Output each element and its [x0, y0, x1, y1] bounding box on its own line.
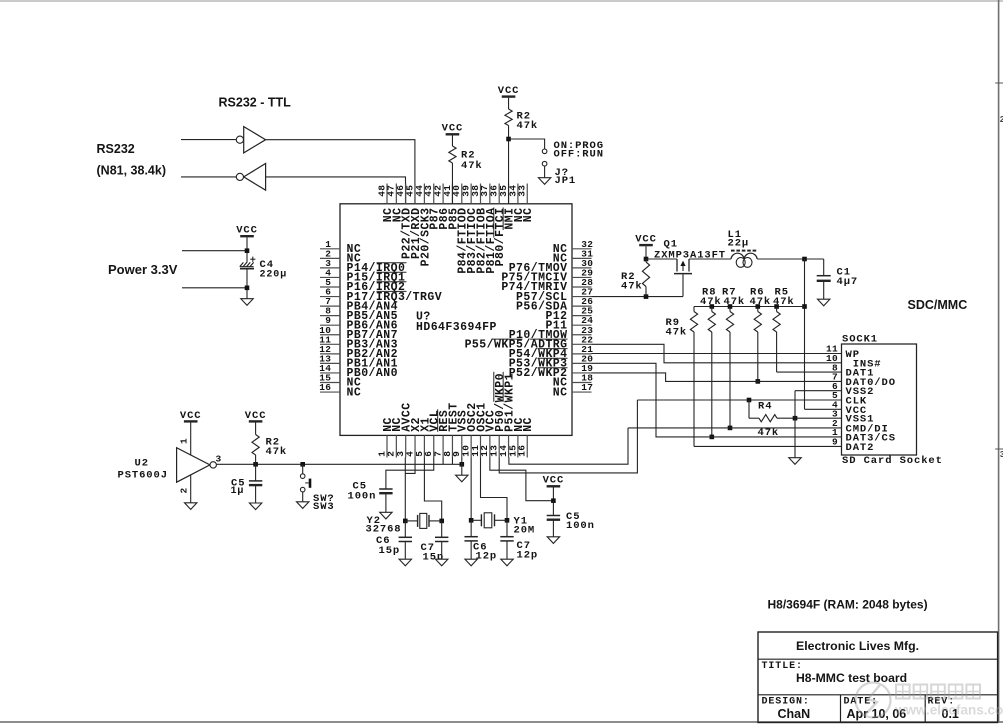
wire P55/ADTRG to INS#	[592, 344, 842, 363]
wire switch drop	[302, 464, 304, 474]
wire pullup bus	[694, 306, 805, 308]
pin 8 TEST (bottom)	[451, 435, 453, 457]
svg-text:ChaN: ChaN	[778, 707, 811, 721]
pin 11 OSC1 (bottom)	[480, 435, 482, 457]
ground (C5 100n)	[380, 512, 392, 519]
pin 35 NMI (top)	[508, 184, 510, 204]
pin 43 P87 (top)	[433, 184, 435, 204]
svg-text:1: 1	[179, 438, 190, 444]
crystal Y2 (32768)	[405, 520, 417, 522]
page bottom border	[0, 721, 1003, 723]
buffer B (TTL to RS232 inverter)	[244, 164, 266, 191]
wire OSC2 drop	[470, 458, 472, 521]
ground (C7 12p)	[501, 559, 513, 566]
wire VCL to C5	[386, 458, 434, 490]
ground (VSS)	[456, 475, 468, 482]
pin 48 NC (top)	[386, 184, 388, 204]
svg-text:NC: NC	[347, 386, 362, 399]
wire P54/WKP4 to WP	[592, 353, 842, 355]
crystal Y1 (20M)	[471, 519, 481, 521]
svg-text:47k: 47k	[700, 296, 722, 308]
svg-text:47k: 47k	[461, 160, 483, 172]
junction	[551, 498, 556, 503]
wire	[552, 520, 554, 537]
pin 5 P16/IRQ2 (left)	[320, 286, 340, 288]
junction	[506, 137, 511, 142]
wire CMD from P51/WKP1	[509, 428, 628, 464]
svg-text:JP1: JP1	[555, 175, 577, 187]
wire	[645, 246, 647, 259]
wire P22/TXD to buffer B input	[266, 177, 406, 204]
ground (C7 15p)	[436, 559, 448, 566]
svg-text:12p: 12p	[517, 550, 539, 562]
node B junction	[439, 519, 444, 524]
frame tick mark 2	[995, 448, 1003, 450]
junction	[802, 304, 807, 309]
svg-text:RS232 - TTL: RS232 - TTL	[219, 96, 292, 110]
wire	[506, 520, 508, 536]
junction	[710, 435, 715, 440]
pin 16 NC (bottom)	[526, 435, 528, 457]
title block outer box	[758, 632, 998, 723]
pin 11 PB3/AN3 (left)	[320, 343, 340, 345]
wire	[470, 541, 472, 559]
pin 28 P74/TMRIV (right)	[572, 286, 592, 288]
pin 47 NC (top)	[395, 184, 397, 204]
svg-text:H8-MMC test board: H8-MMC test board	[796, 671, 907, 685]
svg-text:ZXMP3A13FT: ZXMP3A13FT	[654, 250, 726, 262]
pin 2 NC (bottom)	[395, 435, 397, 457]
svg-text:1µ: 1µ	[231, 486, 245, 497]
capacitor C7 (12p)	[500, 536, 513, 538]
pin 14 PB0/AN0 (left)	[320, 372, 340, 374]
junction	[793, 416, 798, 421]
wire VCC pin12 net	[490, 458, 554, 501]
svg-text:DAT2: DAT2	[846, 442, 875, 454]
svg-text:47k: 47k	[621, 281, 643, 293]
capacitor C6 (15p)	[399, 536, 412, 538]
pin 12 VCC (bottom)	[489, 435, 491, 457]
title block title row line	[758, 694, 998, 696]
wire RES riser	[442, 458, 444, 465]
wire U2 pin1	[190, 423, 192, 456]
wire switched rail to socket VCC	[804, 259, 806, 409]
junction	[300, 462, 305, 467]
svg-text:3: 3	[216, 454, 222, 465]
wire VSS drop	[461, 458, 463, 476]
pin 33 NC (top)	[526, 184, 528, 204]
sheet right frame line	[998, 0, 1000, 722]
ground (SW3)	[297, 502, 309, 509]
pin 8 PB5/AN5 (left)	[320, 315, 340, 317]
svg-text:SW3: SW3	[313, 501, 335, 513]
svg-text:220µ: 220µ	[260, 270, 288, 281]
ground (socket VSS)	[789, 458, 801, 465]
svg-text:NC: NC	[522, 417, 535, 432]
svg-text:U2: U2	[135, 458, 149, 470]
title block company row line	[758, 658, 998, 660]
pin 44 P20/SCK3 (top)	[423, 184, 425, 204]
ground (C5 100n vcc)	[547, 537, 559, 544]
junction	[774, 304, 779, 309]
wire	[441, 521, 443, 537]
junction	[756, 304, 761, 309]
svg-text:4µ7: 4µ7	[837, 276, 859, 288]
wire	[385, 493, 387, 512]
ground (C6 15p)	[399, 559, 411, 566]
pin 12 PB2/AN2 (left)	[320, 353, 340, 355]
capacitor C4 (electrolytic 220u)	[240, 262, 244, 266]
svg-text:NC: NC	[553, 386, 568, 399]
junction	[710, 304, 715, 309]
junction	[802, 257, 807, 262]
svg-text:Power 3.3V: Power 3.3V	[108, 262, 178, 277]
junction	[644, 257, 649, 262]
wire power - input	[182, 287, 247, 289]
capacitor C1 (4u7)	[817, 275, 831, 277]
wire	[255, 455, 257, 464]
pin 39 P83/FTIOC (top)	[470, 184, 472, 204]
pin 15 NC (left)	[320, 382, 340, 384]
pin 23 P10/TMOW (right)	[572, 334, 592, 336]
op-amp U2 PST600J (reset detector)	[177, 448, 210, 483]
wire VCC stem	[246, 237, 248, 262]
wire buffer A output to P21/RXD	[266, 140, 415, 204]
pin 4 P15/IRQ1 (left)	[320, 276, 340, 278]
VCC symbol (R2 P85 pullup)	[446, 133, 460, 135]
pin 31 NC (right)	[572, 257, 592, 259]
page top border	[0, 0, 1003, 2]
wire AVCC / node A drop	[404, 458, 406, 521]
ground (C1)	[818, 299, 830, 306]
svg-text:VCC: VCC	[180, 410, 202, 422]
pin 32 NC (right)	[572, 248, 592, 250]
capacitor C6 (12p)	[464, 536, 477, 538]
wire	[552, 501, 554, 516]
pin 9 PB6/AN6 (left)	[320, 324, 340, 326]
junction	[253, 462, 258, 467]
pin 10 OSC2 (bottom)	[470, 435, 472, 457]
svg-text:16: 16	[319, 382, 331, 393]
pin 20 P53/WKP3 (right)	[572, 362, 592, 364]
pin 42 P86 (top)	[442, 184, 444, 204]
wire P53/WKP3 to DAT3/CS	[592, 363, 842, 437]
wire	[451, 163, 453, 204]
ground (C5 1u)	[249, 503, 261, 510]
svg-text:NC: NC	[522, 208, 535, 223]
VCC symbol (power entry)	[240, 235, 254, 237]
wire	[255, 464, 257, 481]
wire CMD net	[628, 427, 842, 429]
pin 5 X1 (bottom)	[423, 435, 425, 457]
wire TEST riser	[451, 458, 453, 465]
resistor R9 (47k DAT2 pullup)	[693, 307, 695, 312]
junction	[644, 294, 649, 299]
wire	[823, 259, 825, 276]
pin 6 VCL (bottom)	[433, 435, 435, 457]
node junction	[505, 518, 510, 523]
resistor R7 (47k CMD pullup)	[729, 307, 731, 312]
junction	[747, 398, 752, 403]
svg-text:16: 16	[517, 445, 528, 457]
resistor R6 (47k DAT0 pullup)	[757, 307, 759, 312]
switch SW3 pushbutton	[300, 474, 305, 479]
wire	[255, 485, 257, 503]
pin 13 PB1/AN1 (left)	[320, 362, 340, 364]
wire OSC1 jog	[481, 458, 508, 521]
svg-text:47k: 47k	[773, 296, 795, 308]
wire CLK from P50/WKP0	[499, 400, 637, 473]
capacitor C5 (1u)	[249, 480, 262, 482]
wire	[552, 488, 554, 501]
wire	[544, 166, 546, 178]
svg-text:3: 3	[1000, 450, 1003, 460]
svg-text:12p: 12p	[476, 551, 498, 563]
pin 40 P84/FTIOD (top)	[461, 184, 463, 204]
svg-text:RS232: RS232	[97, 142, 135, 156]
wire X1 jog	[424, 458, 441, 521]
wire	[508, 98, 510, 109]
svg-text:H8/3694F (RAM: 2048 bytes): H8/3694F (RAM: 2048 bytes)	[768, 598, 928, 612]
svg-text:VCC: VCC	[245, 410, 267, 422]
node junction	[469, 518, 474, 523]
VCC symbol (R2 pullup)	[249, 420, 263, 422]
wire R5 to DAT1	[777, 371, 842, 373]
pin 17 NC (right)	[572, 391, 592, 393]
svg-text:47k: 47k	[724, 296, 746, 308]
svg-text:47k: 47k	[750, 296, 772, 308]
resistor R2 (47k reset pullup)	[252, 435, 259, 456]
wire to jumper	[509, 139, 545, 149]
title block vline 1	[840, 695, 842, 723]
svg-text:DESIGN:: DESIGN:	[762, 697, 810, 708]
junction	[245, 248, 250, 253]
pin 1 NC (left)	[320, 248, 340, 250]
VCC symbol (U2)	[184, 420, 198, 422]
wire	[470, 520, 472, 536]
node A junction	[403, 519, 408, 524]
svg-text:2: 2	[1000, 115, 1003, 125]
pin 21 P54/WKP4 (right)	[572, 353, 592, 355]
capacitor C7 (15p)	[435, 536, 448, 538]
svg-text:PST600J: PST600J	[118, 470, 168, 482]
wire	[823, 281, 825, 299]
wire NMI net	[508, 126, 510, 205]
wire	[645, 259, 647, 262]
wire VSS ground drop	[794, 391, 796, 458]
resistor R5 (47k DAT1 pullup)	[776, 307, 778, 312]
svg-text:9: 9	[832, 437, 838, 448]
svg-text:47k: 47k	[517, 120, 539, 132]
pin 46 P22/TXD (top)	[405, 184, 407, 204]
pin 7 RES (bottom)	[442, 435, 444, 457]
pin 13 P50/WKP0 (bottom)	[498, 435, 500, 457]
svg-text:20M: 20M	[514, 525, 536, 537]
wire U2 pin2	[190, 475, 192, 503]
ground (C6 12p)	[465, 559, 477, 566]
svg-text:www.elecfans.com: www.elecfans.com	[894, 703, 1003, 718]
pin 38 P82/FTIOB (top)	[480, 184, 482, 204]
junction	[245, 286, 250, 291]
pin 37 P81/FTIOA (top)	[489, 184, 491, 204]
ground (JP1)	[538, 178, 550, 185]
pin 6 P17/IRQ3/TRGV (left)	[320, 296, 340, 298]
svg-text:22µ: 22µ	[728, 238, 750, 250]
svg-text:HD64F3694FP: HD64F3694FP	[416, 321, 497, 334]
wire power + input	[182, 250, 247, 252]
wire	[255, 423, 257, 435]
svg-text:100n: 100n	[348, 491, 377, 503]
wire P57/SCL to gate	[592, 296, 684, 298]
transistor Q1 ZXMP3A13FT (P-MOSFET)	[676, 259, 678, 272]
watermark elecfans logo	[856, 683, 1003, 718]
svg-text:47k: 47k	[666, 327, 688, 339]
wire RES net	[216, 463, 461, 465]
pin 19 P52/WKP2 (right)	[572, 372, 592, 374]
wire VSS2	[795, 390, 842, 392]
buffer A (RS232 to TTL)	[244, 127, 266, 153]
wire RS232 RX input	[181, 139, 236, 141]
ground (U2)	[185, 503, 197, 510]
wire CLK net	[637, 399, 841, 401]
junction	[756, 379, 761, 384]
pin 1 NC (bottom)	[386, 435, 388, 457]
pin 2 NC (left)	[320, 257, 340, 259]
pin 29 P75/TMCIV (right)	[572, 276, 592, 278]
wire P52/WKP2 to DAT0/DO	[592, 373, 842, 381]
pin 26 P56/SDA (right)	[572, 305, 592, 307]
svg-text:VCC: VCC	[236, 225, 258, 237]
wire	[441, 542, 443, 560]
svg-text:VCC: VCC	[543, 475, 565, 487]
ground (power entry)	[241, 299, 253, 306]
pin 10 PB7/AN7 (left)	[320, 334, 340, 336]
resistor R2 (47k gate pullup)	[642, 262, 649, 287]
pin 4 X2 (bottom)	[414, 435, 416, 457]
wire	[506, 541, 508, 559]
pin 25 P12 (right)	[572, 315, 592, 317]
svg-text:32768: 32768	[366, 524, 402, 536]
wire X2 jog	[405, 458, 415, 474]
svg-text:SDC/MMC: SDC/MMC	[908, 298, 968, 312]
svg-text:17: 17	[581, 382, 593, 393]
IC U? HD64F3694FP body	[340, 204, 572, 436]
svg-text:SD Card Socket: SD Card Socket	[842, 455, 943, 467]
wire cap to ground rail	[246, 268, 248, 298]
VCC symbol (Q1 source)	[639, 244, 653, 246]
svg-text:Electronic Lives Mfg.: Electronic Lives Mfg.	[796, 639, 919, 653]
pin 18 NC (right)	[572, 382, 592, 384]
resistor R2 (47k on NMI)	[505, 109, 512, 126]
wire switched VCC to socket	[805, 408, 842, 410]
svg-text:47k: 47k	[266, 446, 288, 458]
VCC symbol (pin12)	[547, 485, 561, 487]
jumper J? JP1	[542, 149, 547, 154]
svg-text:15p: 15p	[379, 545, 401, 557]
wire	[451, 136, 453, 147]
junction	[460, 462, 465, 467]
capacitor C5 (100n VCL)	[379, 488, 392, 490]
pin 22 P55/WKP5/ADTRG (right)	[572, 343, 592, 345]
wire source rail	[646, 258, 677, 260]
svg-text:33: 33	[517, 185, 528, 197]
svg-text:OFF:RUN: OFF:RUN	[554, 148, 604, 160]
pin 45 P21/RXD (top)	[414, 184, 416, 204]
connector SOCK1 body	[842, 344, 917, 455]
svg-text:VCC: VCC	[498, 85, 520, 97]
resistor R4 (47k CLK pulldown)	[748, 400, 750, 418]
pin 7 PB4/AN4 (left)	[320, 305, 340, 307]
junction	[728, 426, 733, 431]
wire	[404, 542, 406, 560]
wire	[302, 492, 304, 502]
VCC symbol (R2 NMI pullup)	[502, 95, 516, 97]
svg-text:R4: R4	[758, 401, 772, 413]
pin 27 P57/SCL (right)	[572, 296, 592, 298]
capacitor C5 (100n VCC)	[547, 515, 560, 517]
title block vline 2	[924, 695, 926, 723]
pin 16 NC (left)	[320, 391, 340, 393]
pin 36 P80/FTCI (top)	[498, 184, 500, 204]
wire	[404, 521, 406, 537]
wire switched VCC rail	[757, 258, 824, 260]
pin 34 NC (top)	[517, 184, 519, 204]
pin 15 NC (bottom)	[517, 435, 519, 457]
pin 9 VSS (bottom)	[461, 435, 463, 457]
pin 3 P14/IRQ0 (left)	[320, 267, 340, 269]
frame tick mark	[995, 82, 1003, 84]
wire drain rail	[689, 258, 731, 260]
resistor R8 (47k DAT3 pullup)	[711, 307, 713, 312]
svg-text:VCC: VCC	[635, 234, 657, 246]
inductor L1 (22u)	[731, 250, 735, 252]
pin 41 P85 (top)	[451, 184, 453, 204]
pin 3 AVCC (bottom)	[405, 435, 407, 457]
resistor R2 (47k on P85)	[449, 146, 456, 163]
svg-text:100n: 100n	[566, 520, 595, 532]
pin 14 P51/WKP1 (bottom)	[508, 435, 510, 457]
svg-text:VCC: VCC	[442, 123, 464, 135]
wire R9 to DAT2	[694, 445, 842, 447]
junction	[728, 304, 733, 309]
wire RS232 TX output	[181, 176, 236, 178]
pin 30 P76/TMOV (right)	[572, 267, 592, 269]
svg-text:2: 2	[179, 487, 190, 493]
svg-text:(N81, 38.4k): (N81, 38.4k)	[97, 164, 166, 178]
pin 24 P11 (right)	[572, 324, 592, 326]
